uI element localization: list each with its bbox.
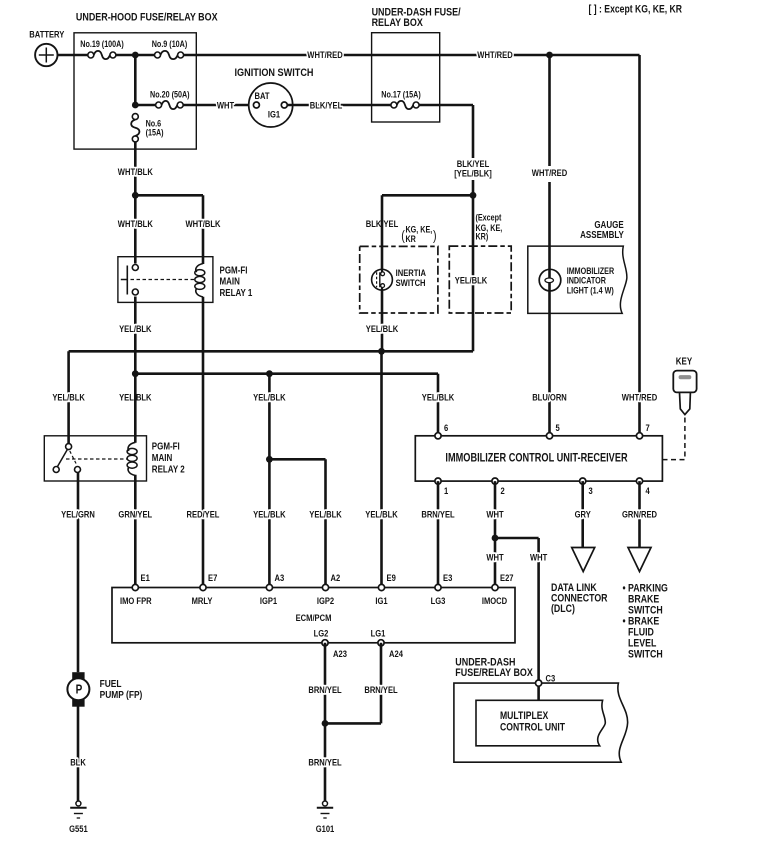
svg-text:(15A): (15A)	[146, 128, 164, 138]
svg-text:IMMOBILIZER: IMMOBILIZER	[567, 266, 615, 276]
label (Except KG KE KR)	[476, 213, 503, 242]
svg-text:MULTIPLEX: MULTIPLEX	[500, 710, 549, 722]
svg-text:IGP2: IGP2	[317, 595, 334, 606]
svg-text:WHT/RED: WHT/RED	[622, 392, 657, 403]
yel/blk bypass box except models	[449, 246, 511, 313]
svg-text:•: •	[623, 616, 627, 628]
wire MRLY relay1 coil down to ECM E7	[187, 297, 220, 588]
arrow to brake switches	[628, 548, 651, 572]
svg-text:7: 7	[646, 422, 650, 433]
node junction inertia bottom	[378, 348, 385, 355]
note: except KG KE KR	[589, 4, 682, 16]
svg-text:GRN/YEL: GRN/YEL	[118, 509, 152, 520]
svg-text:2: 2	[501, 485, 505, 496]
ground G551	[69, 801, 88, 834]
svg-text:WHT: WHT	[486, 509, 504, 520]
svg-text:PGM-FI: PGM-FI	[220, 264, 248, 275]
wire branch to inertia switch	[382, 194, 473, 197]
ground G101	[316, 801, 335, 834]
ECM pin E7 MRLY	[192, 572, 218, 606]
svg-text:YEL/BLK: YEL/BLK	[455, 274, 488, 285]
ECM pin LG1 A24	[371, 627, 404, 659]
pin 7	[636, 422, 650, 439]
node junction x=495 y=538	[492, 535, 499, 542]
svg-text:LG2: LG2	[314, 627, 329, 638]
multiplex control unit	[476, 700, 605, 746]
pin 4	[636, 478, 650, 496]
svg-text:GRY: GRY	[575, 509, 591, 520]
label (KG KE KR)	[401, 225, 436, 244]
label data link connector	[551, 582, 608, 615]
svg-text:A3: A3	[275, 572, 285, 583]
svg-text:YEL/BLK: YEL/BLK	[253, 392, 286, 403]
wire GRY pin3 to DLC	[575, 481, 591, 547]
svg-text:BATTERY: BATTERY	[29, 29, 64, 40]
ECM pin LG2 A23	[314, 627, 348, 659]
svg-text:G101: G101	[316, 823, 335, 834]
svg-text:MAIN: MAIN	[220, 276, 240, 287]
svg-text:A24: A24	[389, 648, 403, 659]
bus wire y=373.7	[135, 374, 455, 436]
battery B1	[29, 29, 64, 67]
fuse No.19 (100A)	[80, 39, 124, 59]
immobilizer control unit-receiver	[415, 436, 662, 481]
svg-text:5: 5	[556, 422, 560, 433]
node junction x=135.3 y=195.3	[132, 192, 139, 199]
svg-text:IMMOBILIZER CONTROL UNIT-RECEI: IMMOBILIZER CONTROL UNIT-RECEIVER	[445, 453, 628, 465]
wire YEL/GRN relay2 to fuel pump	[61, 473, 95, 673]
svg-text:IG1: IG1	[268, 109, 280, 120]
dashed wire key to receiver	[662, 418, 685, 460]
wire YEL/BLK inertia to ECM E9	[365, 351, 398, 587]
svg-text:(DLC): (DLC)	[551, 603, 575, 615]
svg-text:YEL/GRN: YEL/GRN	[61, 509, 95, 520]
svg-text:G551: G551	[69, 823, 88, 834]
node junction at fuse box y=55	[132, 52, 139, 59]
svg-text:RELAY BOX: RELAY BOX	[372, 17, 423, 29]
ECM pin E27 IMOCD	[482, 572, 514, 606]
svg-text:WHT/BLK: WHT/BLK	[118, 166, 154, 177]
svg-text:[YEL/BLK]: [YEL/BLK]	[454, 168, 492, 179]
svg-text:WHT: WHT	[217, 99, 235, 110]
lamp immobilizer indicator light	[539, 266, 614, 296]
svg-text:ECM/PCM: ECM/PCM	[296, 612, 332, 623]
wire WHT/RED top right corner	[622, 55, 657, 436]
wire WHT/BLK to relay 1 coil	[185, 195, 221, 264]
wire WHT to ignition switch	[135, 99, 253, 110]
svg-text:BAT: BAT	[254, 90, 270, 101]
svg-text:PGM-FI: PGM-FI	[152, 441, 180, 452]
pin 5	[546, 422, 560, 439]
svg-text:SWITCH: SWITCH	[628, 649, 663, 661]
wire branch to relay 1 coil	[135, 194, 203, 197]
svg-text:MAIN: MAIN	[152, 452, 172, 463]
svg-text:MRLY: MRLY	[192, 595, 213, 606]
svg-text:WHT: WHT	[530, 552, 548, 563]
svg-text:INDICATOR: INDICATOR	[567, 276, 606, 286]
svg-text:YEL/BLK: YEL/BLK	[365, 509, 398, 520]
svg-text:RELAY 2: RELAY 2	[152, 464, 185, 475]
key	[673, 356, 696, 415]
wire BLK/YEL ignition to under-dash box	[287, 99, 371, 110]
svg-text:C3: C3	[546, 672, 556, 683]
svg-text:(: (	[401, 228, 405, 243]
fuel pump FP	[67, 672, 142, 707]
wire branch to ECM A2	[269, 459, 342, 587]
wire vertical inside fuse box	[134, 55, 137, 105]
svg-text:E3: E3	[443, 572, 452, 583]
wire WHT/RED down to indicator light	[532, 55, 567, 436]
wire WHT/BLK from fuse No.6	[118, 142, 154, 195]
wire GRN/YEL relay2 coil to ECM E1	[118, 475, 152, 588]
svg-text:No.17 (15A): No.17 (15A)	[381, 90, 421, 100]
svg-text:PUMP (FP): PUMP (FP)	[100, 689, 143, 701]
svg-text:KR): KR)	[476, 232, 489, 242]
pin 6	[435, 422, 449, 439]
svg-text:RED/YEL: RED/YEL	[187, 509, 220, 520]
fuse No.6 (15A)	[131, 114, 164, 142]
node junction WHT/RED y=55 x=549.5	[546, 52, 553, 59]
svg-text:No.9 (10A): No.9 (10A)	[152, 39, 188, 49]
svg-text:YEL/BLK: YEL/BLK	[309, 509, 342, 520]
svg-text:): )	[433, 228, 437, 243]
ECM/PCM box	[112, 588, 515, 643]
svg-text:E27: E27	[500, 572, 514, 583]
under-dash fuse/relay box	[372, 7, 461, 122]
svg-text:BLK: BLK	[70, 756, 86, 767]
svg-text:WHT/RED: WHT/RED	[532, 167, 567, 178]
relay PGM-FI MAIN RELAY 1	[118, 257, 252, 303]
node junction x=473 y=195.3	[470, 192, 477, 199]
wire BRN/YEL pin1 to ECM E3	[421, 481, 454, 587]
gauge assembly box	[528, 219, 627, 313]
svg-text:IGP1: IGP1	[260, 595, 277, 606]
under-hood fuse/relay box	[74, 12, 218, 149]
svg-text:BRN/YEL: BRN/YEL	[421, 509, 454, 520]
svg-text:•: •	[623, 583, 627, 595]
fuse No.9 (10A)	[152, 39, 188, 59]
label BLU/ORN	[532, 392, 567, 403]
label parking brake switch / brake fluid level switch	[623, 583, 669, 661]
inertia switch box	[360, 246, 438, 313]
ECM pin A2 IGP2	[317, 572, 341, 606]
wire WHT/BLK to relay 1 contact	[118, 195, 154, 263]
svg-text:YEL/BLK: YEL/BLK	[52, 392, 85, 403]
svg-text:WHT/RED: WHT/RED	[477, 49, 512, 60]
inertia switch SW2	[372, 267, 426, 290]
fuse No.20 (50A)	[150, 90, 190, 109]
relay PGM-FI MAIN RELAY 2	[44, 436, 184, 481]
svg-text:IG1: IG1	[375, 595, 387, 606]
arrow to data link connector	[572, 548, 595, 572]
ECM pin E9 IG1	[375, 572, 396, 606]
svg-text:6: 6	[444, 422, 448, 433]
svg-text:WHT/BLK: WHT/BLK	[118, 218, 154, 229]
svg-text:3: 3	[589, 485, 593, 496]
svg-text:YEL/BLK: YEL/BLK	[253, 509, 286, 520]
svg-text:SWITCH: SWITCH	[396, 277, 426, 288]
svg-text:E1: E1	[141, 572, 150, 583]
svg-text:IMOCD: IMOCD	[482, 595, 507, 606]
svg-text:E7: E7	[208, 572, 217, 583]
pin 1	[435, 478, 449, 496]
svg-text:BLK/YEL: BLK/YEL	[310, 99, 342, 110]
ECM pin E3 LG3	[431, 572, 453, 606]
wire coil relay2 from bus	[134, 374, 137, 443]
wire BLK/YEL vertical x=473	[454, 105, 492, 351]
svg-text:LG3: LG3	[431, 595, 446, 606]
wire BRN/YEL LG1 drop	[325, 643, 398, 724]
bus wire y=351.3	[69, 350, 473, 353]
label WHT/RED left	[307, 49, 342, 60]
svg-text:YEL/BLK: YEL/BLK	[366, 323, 399, 334]
node junction at fuse box y=105	[132, 102, 139, 109]
svg-text:A2: A2	[331, 572, 341, 583]
svg-text:BRN/YEL: BRN/YEL	[364, 684, 397, 695]
svg-text:[ ] : Except KG, KE, KR: [ ] : Except KG, KE, KR	[589, 4, 682, 16]
ECM pin A3 IGP1	[260, 572, 285, 606]
svg-text:BRN/YEL: BRN/YEL	[308, 757, 341, 768]
pin 3	[580, 478, 593, 496]
wire YEL/BLK to ECM A3	[253, 374, 286, 588]
svg-text:No.19 (100A): No.19 (100A)	[80, 39, 124, 49]
wire WHT/RED main feed y=55	[74, 54, 640, 57]
svg-text:ASSEMBLY: ASSEMBLY	[580, 229, 624, 240]
svg-text:(Except: (Except	[476, 213, 502, 223]
svg-text:LIGHT (1.4 W): LIGHT (1.4 W)	[567, 286, 614, 296]
svg-text:YEL/BLK: YEL/BLK	[422, 392, 455, 403]
svg-text:4: 4	[646, 485, 650, 496]
node junction x=269.4 y=373.7	[266, 370, 273, 377]
svg-text:KR: KR	[406, 234, 416, 244]
label BLK/YEL inertia branch	[366, 218, 398, 229]
connector C3	[536, 672, 556, 700]
svg-text:E9: E9	[387, 572, 396, 583]
svg-text:KEY: KEY	[676, 356, 692, 367]
wire GRN/RED pin4 to brake switches	[622, 481, 657, 547]
svg-text:WHT/RED: WHT/RED	[307, 49, 342, 60]
svg-text:GRN/RED: GRN/RED	[622, 509, 657, 520]
wire inertia switch branch down	[366, 195, 399, 351]
ECM pin E1 IMO FPR	[120, 572, 152, 606]
svg-text:No.20 (50A): No.20 (50A)	[150, 90, 190, 100]
svg-text:FUSE/RELAY BOX: FUSE/RELAY BOX	[455, 667, 533, 679]
svg-text:WHT: WHT	[486, 552, 504, 563]
svg-text:IGNITION SWITCH: IGNITION SWITCH	[235, 67, 314, 79]
ignition switch SW1	[235, 67, 314, 127]
svg-text:WHT/BLK: WHT/BLK	[185, 218, 221, 229]
wire YEL/BLK left drop to relay 2	[52, 351, 85, 443]
svg-text:KG, KE,: KG, KE,	[406, 225, 433, 235]
svg-text:LG1: LG1	[371, 627, 386, 638]
fuse No.17 (15A)	[372, 90, 473, 109]
svg-text:FUEL: FUEL	[100, 678, 122, 690]
svg-text:BLU/ORN: BLU/ORN	[532, 392, 567, 403]
svg-text:A23: A23	[333, 648, 347, 659]
svg-text:UNDER-HOOD FUSE/RELAY BOX: UNDER-HOOD FUSE/RELAY BOX	[76, 12, 218, 24]
wire WHT pin2 to ECM E27	[486, 481, 504, 587]
wire BRN/YEL LG2 to ground	[308, 643, 341, 802]
svg-text:IMO FPR: IMO FPR	[120, 595, 152, 606]
svg-text:1: 1	[444, 485, 448, 496]
node junction x=135.3 y=373.7	[132, 370, 139, 377]
svg-text:CONTROL UNIT: CONTROL UNIT	[500, 722, 565, 734]
svg-text:BRN/YEL: BRN/YEL	[308, 684, 341, 695]
node junction x=325 y=723.4	[322, 720, 329, 727]
svg-text:YEL/BLK: YEL/BLK	[119, 323, 152, 334]
svg-text:P: P	[76, 684, 83, 697]
wire YEL/BLK relay1 contact down	[119, 297, 152, 374]
wire BLK fuel pump to ground	[70, 707, 86, 802]
under-dash fuse/relay box 2	[454, 656, 628, 762]
wire battery to under-hood box	[58, 54, 75, 57]
label YEL/BLK x=135 y=400	[119, 392, 152, 403]
label WHT/RED right	[477, 49, 512, 60]
svg-text:RELAY 1: RELAY 1	[220, 287, 253, 298]
pin 2	[492, 478, 505, 496]
wire WHT branch to C3	[495, 538, 548, 680]
node junction x=269.4 y=459.3	[266, 456, 273, 463]
